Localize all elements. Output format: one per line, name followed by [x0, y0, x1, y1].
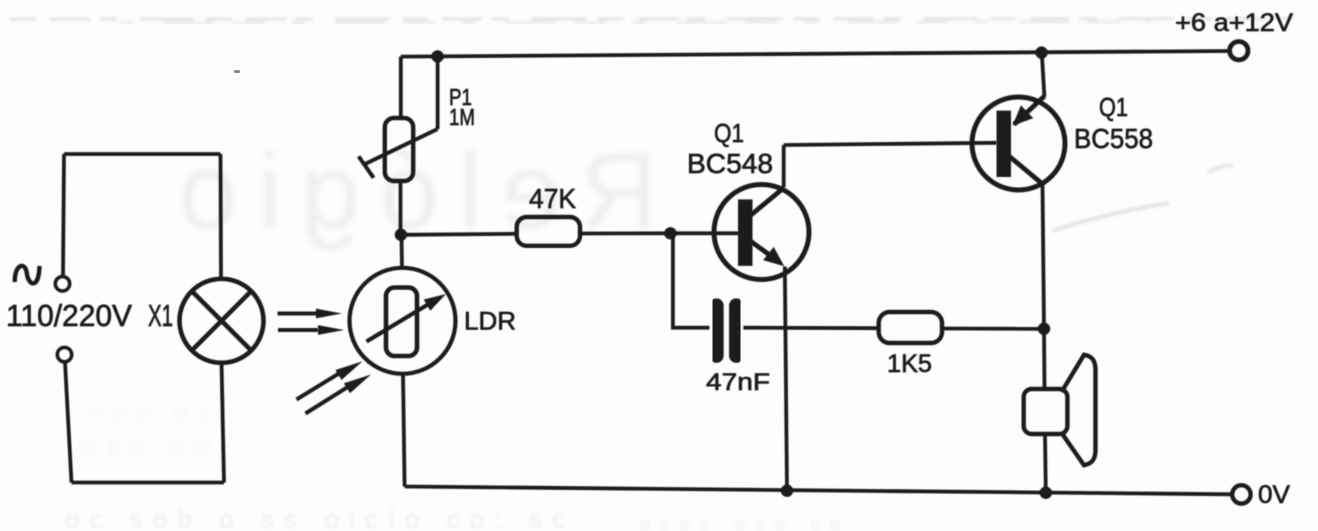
node dot: emitter to bottom rail: [781, 485, 793, 497]
svg-text:BC558: BC558: [1074, 123, 1153, 154]
P1 wiper vertical from node: [436, 57, 440, 129]
wire: LDR bottom lead: [403, 374, 405, 487]
svg-text:BC548: BC548: [687, 148, 773, 179]
light arrow 2 shaft: [278, 328, 318, 332]
wire: top supply rail: [401, 51, 1230, 57]
wire: collector node to speaker: [1042, 329, 1046, 389]
P1 wiper diagonal: [364, 129, 438, 165]
LDR arrow shaft: [367, 302, 433, 342]
light arrow 1 head: [316, 309, 342, 319]
wire: BC558 collector vertical: [1043, 184, 1045, 329]
lamp X1 circle: [180, 279, 264, 363]
resistor 1K5 body: [879, 312, 942, 343]
Q1 BC548 emitter arrow head: [763, 247, 784, 266]
svg-text:+6 a+12V: +6 a+12V: [1175, 9, 1293, 37]
scan artifact: ghost title bleed-through: [178, 130, 658, 251]
svg-text:Q1: Q1: [1099, 92, 1128, 122]
terminal: AC input upper circle: [55, 277, 69, 291]
light arrow 2 head: [318, 325, 344, 335]
node dot: speaker to bottom rail: [1040, 487, 1052, 499]
svg-text:47K: 47K: [529, 183, 576, 214]
LDR arrow head: [424, 294, 446, 311]
wire: lamp loop bottom edge: [72, 481, 225, 485]
wire: lamp loop right vertical upper: [219, 154, 223, 280]
wire: 47K to base node: [580, 231, 670, 235]
wire: speaker to bottom rail: [1043, 434, 1048, 493]
light arrow 3 shaft (diagonal): [297, 373, 341, 400]
svg-text:oso co: oso co: [80, 429, 210, 462]
svg-text:1M: 1M: [449, 104, 475, 130]
wire: P1 top lead: [399, 57, 403, 118]
wire: base node to Q1 BC548 base: [670, 231, 739, 235]
scan artifact: top noise band: [10, 18, 1310, 23]
light arrow 3 head: [335, 361, 362, 380]
svg-text:X1: X1: [148, 298, 173, 333]
wire: bottom rail: [405, 487, 1233, 495]
wire: lamp loop top edge: [64, 152, 221, 156]
AC source symbol ~: [15, 266, 40, 284]
resistor 47K body: [517, 217, 580, 246]
svg-text:1K5: 1K5: [887, 350, 932, 378]
lamp X1 cross stroke 2: [192, 291, 251, 350]
terminal: 0V circle: [1232, 485, 1250, 503]
wire: BC548 collector to BC558 base: [784, 143, 997, 145]
LDR circle: [350, 268, 456, 374]
Q1 BC558 emitter diagonal: [1014, 96, 1045, 125]
light arrow 4 shaft (diagonal): [306, 387, 349, 414]
Q1 BC548 base bar: [738, 199, 753, 266]
light arrow 4 head: [344, 375, 371, 394]
wire: Q1 BC548 emitter vertical: [785, 267, 787, 491]
wire: base node down: [673, 233, 710, 327]
svg-text:ocos oso co: ocos oso co: [640, 515, 840, 531]
LDR body rounded rect: [386, 288, 417, 357]
svg-text:110/220V: 110/220V: [6, 298, 132, 333]
svg-text:oc sob o ss oicío co: sc: oc sob o ss oicío co: sc: [65, 504, 565, 531]
svg-text:cso os: cso os: [90, 396, 210, 426]
wire: BC558 emitter vertical to rail: [1042, 53, 1045, 97]
Q1 BC558 emitter arrow head (points into base): [1013, 105, 1034, 125]
wire: node to 47K: [401, 234, 517, 235]
P1 wiper end tick: [359, 156, 374, 177]
scan artifact: bottom ghost text row: [65, 396, 840, 531]
wire: 1K5 to collector node: [942, 327, 1044, 331]
transistor Q1 BC548 circle: [714, 185, 809, 280]
Q1 BC558 collector diagonal: [1010, 157, 1043, 185]
capacitor 47nF right plate: [729, 306, 743, 356]
wire: Q1 BC548 collector vertical: [782, 145, 786, 187]
wire: lamp loop left vertical lower: [65, 362, 72, 483]
wire: LDR top lead: [400, 237, 404, 268]
node dot: 1K5/collector node: [1038, 323, 1050, 335]
terminal: +supply circle: [1230, 42, 1248, 60]
svg-text:LDR: LDR: [464, 308, 516, 336]
capacitor 47nF left plate: [709, 306, 723, 356]
svg-text:47nF: 47nF: [706, 369, 770, 396]
wire: capacitor right to 1K5: [743, 326, 878, 330]
svg-text:Q1: Q1: [714, 118, 744, 148]
node dot: 47K/base/cap node: [664, 227, 676, 239]
Q1 BC548 collector diagonal: [751, 188, 784, 215]
lamp X1 cross stroke 1: [192, 291, 251, 350]
svg-text:0V: 0V: [1258, 481, 1290, 509]
wire: P1 bottom lead: [399, 181, 403, 236]
wire: lamp loop left vertical upper: [63, 154, 64, 277]
scan artifact: wavy scratch right: [1052, 165, 1233, 231]
light arrow 1 shaft: [278, 312, 319, 316]
potentiometer P1 body: [385, 118, 413, 181]
transistor Q1 BC558 circle: [972, 97, 1065, 190]
node dot: P1 wiper tap on rail: [431, 50, 443, 62]
scan artifact: small speck: [234, 70, 240, 73]
wire: lamp loop right vertical lower: [222, 362, 225, 483]
speaker horn: [1062, 355, 1096, 465]
node dot: P1/LDR/47K node: [395, 229, 407, 241]
Q1 BC548 emitter diagonal: [751, 242, 771, 257]
speaker driver box: [1024, 389, 1068, 434]
node dot: BC558 emitter on rail: [1035, 46, 1047, 58]
terminal: AC input lower circle: [57, 347, 71, 361]
Q1 BC558 base bar: [997, 111, 1012, 177]
